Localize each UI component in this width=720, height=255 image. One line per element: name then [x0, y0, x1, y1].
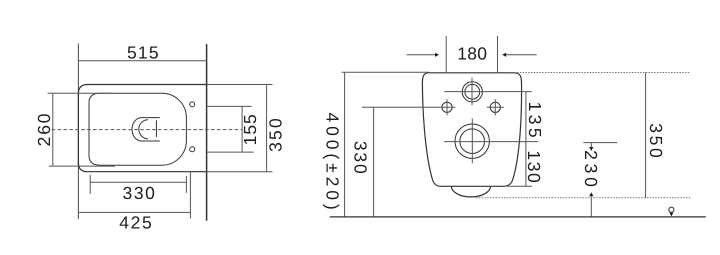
tick at bottom level (body bottom edge extension) — [507, 185, 532, 187]
svg-text:515: 515 — [127, 43, 160, 63]
dimension 155 line — [241, 106, 243, 152]
water inlet outer circle — [462, 82, 482, 102]
dimension 400(±20) line — [344, 72, 346, 217]
drain crosshair — [444, 141, 538, 143]
right hole crosshair — [487, 106, 504, 108]
wire: top edge extension to 350 dim — [207, 84, 273, 86]
wire: front extension line — [77, 44, 79, 220]
svg-text:260: 260 — [34, 112, 54, 147]
svg-text:330: 330 — [351, 141, 371, 176]
dimension 180 left extension — [445, 36, 447, 73]
wire: wall line — [206, 44, 208, 221]
drain cup inner arc — [139, 120, 148, 139]
dimension 230 top tick — [583, 142, 617, 144]
dimension 350 left-view line — [266, 85, 268, 172]
inlet crosshair — [444, 91, 532, 93]
wire: body top edge extension to 400 dim — [342, 71, 429, 73]
svg-text:130: 130 — [524, 150, 544, 184]
right mounting hole — [490, 102, 500, 112]
mounting hole upper — [190, 102, 195, 107]
toilet rim (inner) outline — [89, 93, 186, 165]
dimension 330 left extension — [89, 175, 91, 194]
drain cup center mark — [155, 120, 157, 137]
mounting hole lower — [190, 147, 195, 152]
svg-text:180: 180 — [457, 43, 487, 63]
drain outer circle — [455, 124, 489, 158]
dimension 260 line — [52, 93, 54, 166]
dimension 515 line — [78, 60, 206, 62]
floor datum symbol — [669, 207, 674, 212]
drain cup outer arc — [132, 118, 160, 141]
svg-text:425: 425 — [119, 213, 153, 233]
dimension 135/130 line — [525, 92, 527, 187]
dimension 330 rear line — [373, 107, 375, 217]
centerline (dashed) — [52, 129, 242, 131]
svg-text:135: 135 — [525, 102, 545, 141]
dimension 180 left arrow — [407, 54, 435, 56]
dimension 260 bottom tick — [49, 165, 115, 167]
dimension 155 bottom extension — [207, 151, 254, 153]
dimension 155 top extension — [207, 105, 252, 107]
bottom dashed line — [476, 197, 692, 199]
dimension 330 line — [90, 181, 186, 183]
svg-text:350: 350 — [646, 123, 666, 160]
dimension 425 line — [78, 211, 190, 213]
svg-text:330: 330 — [123, 183, 157, 203]
dimension 350 rear line — [645, 73, 647, 198]
svg-text:230: 230 — [581, 150, 601, 191]
dimension 260 top tick — [48, 92, 113, 94]
left hole crosshair — [362, 106, 456, 108]
floor line — [330, 216, 706, 218]
water inlet inner circle — [465, 84, 480, 99]
toilet outer body outline (top view) — [78, 85, 206, 172]
dimension 330 right extension — [185, 176, 187, 193]
dimension 180 right extension — [497, 36, 499, 73]
dimension 425 right extension — [189, 172, 191, 219]
dimension 230 upper arrow (down) — [590, 143, 592, 147]
left mounting hole — [442, 102, 452, 112]
svg-text:350: 350 — [266, 116, 286, 152]
dimension 180 right arrow — [506, 54, 537, 56]
toilet body outline (rear view) — [422, 73, 521, 187]
svg-text:400(±20): 400(±20) — [323, 112, 343, 213]
svg-text:155: 155 — [240, 113, 260, 145]
drain inner circle — [460, 129, 485, 154]
outlet ellipse bottom arc — [451, 186, 490, 197]
dimension 230 lower arrow (up) — [589, 192, 593, 196]
top dashed line — [517, 72, 690, 74]
wire: bottom edge extension to 350 dim — [207, 171, 273, 173]
